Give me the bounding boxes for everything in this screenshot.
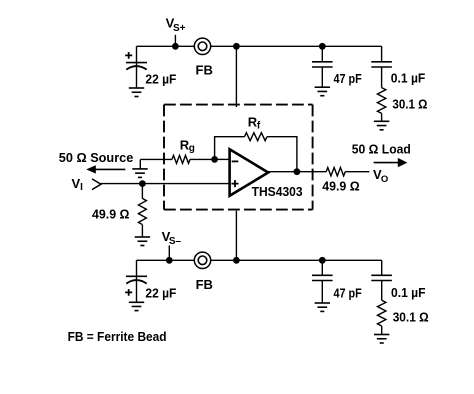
svg-text:49.9 Ω: 49.9 Ω	[322, 178, 360, 193]
svg-text:THS4303: THS4303	[252, 184, 303, 199]
svg-text:FB: FB	[196, 277, 213, 292]
svg-text:0.1 µF: 0.1 µF	[391, 285, 426, 300]
svg-text:49.9 Ω: 49.9 Ω	[92, 207, 130, 222]
svg-text:30.1 Ω: 30.1 Ω	[393, 310, 429, 325]
svg-text:FB = Ferrite Bead: FB = Ferrite Bead	[68, 329, 167, 344]
svg-text:22 µF: 22 µF	[145, 71, 176, 86]
svg-text:22 µF: 22 µF	[145, 286, 176, 301]
svg-text:FB: FB	[196, 62, 213, 77]
svg-text:0.1 µF: 0.1 µF	[391, 71, 426, 86]
svg-text:50 Ω Source: 50 Ω Source	[59, 150, 134, 165]
svg-text:47 pF: 47 pF	[334, 285, 362, 300]
svg-text:50 Ω Load: 50 Ω Load	[352, 141, 411, 156]
svg-text:47 pF: 47 pF	[334, 71, 362, 86]
svg-text:30.1 Ω: 30.1 Ω	[392, 97, 427, 112]
